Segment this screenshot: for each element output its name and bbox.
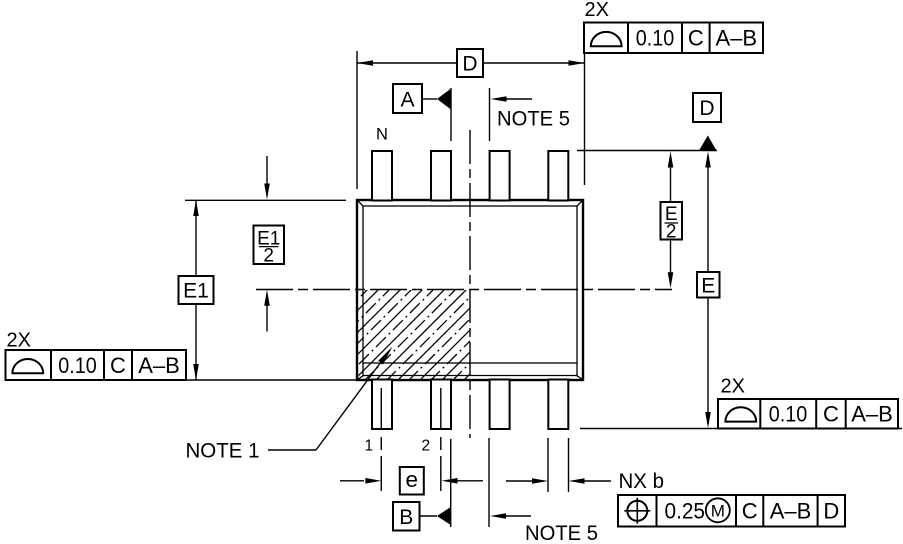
svg-text:2X: 2X xyxy=(721,376,745,398)
svg-text:0.10: 0.10 xyxy=(636,26,675,51)
top-right feature control frame xyxy=(584,23,763,54)
dimension e label box xyxy=(400,467,424,495)
svg-text:0.10: 0.10 xyxy=(58,353,97,378)
dimension E1/2 lower arrow xyxy=(266,295,268,332)
pin 2 centerline xyxy=(440,388,442,491)
bottom pin 1 xyxy=(372,380,392,430)
dimension E/2 line with arrows xyxy=(670,156,672,284)
svg-text:A–B: A–B xyxy=(716,26,758,51)
dimension e right arrow xyxy=(457,480,483,482)
top pin 1 xyxy=(372,151,392,201)
datum A label box xyxy=(393,84,422,113)
dimension E1 label box xyxy=(179,276,214,304)
left frame profile-of-line symbol xyxy=(12,359,43,373)
bottom pin 3 xyxy=(490,380,510,430)
svg-text:A: A xyxy=(400,89,414,112)
svg-text:E1: E1 xyxy=(183,280,209,303)
svg-text:NOTE 1: NOTE 1 xyxy=(186,439,260,463)
package corner bevels xyxy=(358,201,583,380)
dimension E1 bottom extension line xyxy=(186,379,357,381)
svg-text:0.25: 0.25 xyxy=(665,499,706,524)
svg-text:NOTE 5: NOTE 5 xyxy=(497,107,570,131)
dimension E1 top extension line xyxy=(185,199,346,201)
svg-text:0.10: 0.10 xyxy=(769,402,808,427)
svg-text:C: C xyxy=(823,402,839,427)
svg-text:2: 2 xyxy=(263,246,274,267)
svg-text:B: B xyxy=(399,506,413,529)
svg-text:2: 2 xyxy=(422,438,431,455)
dimension E label box xyxy=(697,272,720,298)
svg-text:NX b: NX b xyxy=(619,469,665,493)
dimension e left arrow xyxy=(340,480,364,482)
datum B target line (pin 2 edge extension) xyxy=(450,439,452,527)
NOTE 1 leader with arrowhead into hatched area xyxy=(268,362,381,451)
svg-text:2X: 2X xyxy=(7,330,31,352)
svg-text:e: e xyxy=(406,467,419,492)
bottom-right frame profile-of-line symbol xyxy=(725,407,756,421)
bottom-right feature control frame xyxy=(718,399,898,429)
svg-text:D: D xyxy=(462,53,477,76)
package bottom bevel edge xyxy=(363,375,577,377)
svg-text:C: C xyxy=(110,353,126,378)
position symbol xyxy=(627,501,647,521)
datum D filled triangle xyxy=(699,136,717,151)
datum B leader and filled triangle xyxy=(420,515,438,517)
svg-text:A–B: A–B xyxy=(138,353,180,378)
svg-text:N: N xyxy=(376,126,388,144)
dimension D extension line right / leader from top-right frame xyxy=(584,53,586,185)
NOTE 5 bottom arrow xyxy=(505,515,531,517)
top pin 3 xyxy=(490,151,510,201)
dimension E1 line with arrows xyxy=(195,200,197,380)
top pin 2 xyxy=(431,151,451,201)
datum A leader and filled triangle xyxy=(422,98,437,100)
hatched pin-1 index area (NOTE 1 region) xyxy=(265,286,558,381)
svg-text:D: D xyxy=(823,499,839,524)
vertical centerline xyxy=(469,130,471,438)
left feature control frame xyxy=(6,350,187,380)
dimension E line with arrows xyxy=(707,156,709,424)
top-right frame profile-of-line symbol xyxy=(591,32,622,46)
NOTE 5 top reference line (pin 3 edge extension) xyxy=(489,88,491,141)
top pin 4 (pin N) xyxy=(548,151,568,201)
svg-text:2: 2 xyxy=(666,222,677,243)
svg-text:E: E xyxy=(701,274,715,297)
svg-text:NOTE 5: NOTE 5 xyxy=(525,521,598,544)
svg-text:M: M xyxy=(711,501,725,520)
svg-text:D: D xyxy=(699,97,714,120)
NOTE 5 bottom reference line (pin 3 edge extension) xyxy=(488,438,490,527)
pin 4 edge extension lines for dimension b xyxy=(547,438,549,492)
svg-text:A–B: A–B xyxy=(770,499,812,524)
svg-text:C: C xyxy=(742,499,758,524)
top pin-tip extension line (right) xyxy=(577,150,717,152)
dimension E1/2 label box (fraction) xyxy=(254,226,285,265)
bottom pin 4 xyxy=(548,380,568,430)
svg-text:A–B: A–B xyxy=(851,402,893,427)
dimension E1/2 upper arrow xyxy=(266,156,268,194)
dimension D line with arrows xyxy=(357,62,585,64)
dimension D extension line left xyxy=(356,51,358,189)
dimension E/2 label box (fraction) xyxy=(661,202,683,240)
dimension D label box xyxy=(457,49,483,77)
svg-text:1: 1 xyxy=(365,438,374,455)
NOTE 5 top arrow xyxy=(505,98,532,100)
dimension b left arrow xyxy=(506,480,532,482)
dimension b right arrow xyxy=(584,480,611,482)
svg-text:C: C xyxy=(688,26,704,51)
datum B label box xyxy=(393,502,420,531)
svg-text:2X: 2X xyxy=(585,0,609,21)
datum D label box xyxy=(693,93,721,122)
horizontal centerline xyxy=(256,289,672,291)
bottom pin 2 xyxy=(431,380,451,430)
pin 1 centerline xyxy=(380,388,382,491)
position tolerance feature control frame xyxy=(618,495,845,527)
bottom pin-tip extension line (right) xyxy=(580,428,902,430)
package body outer outline xyxy=(357,200,583,380)
package body inner (top surface) outline xyxy=(363,206,577,363)
datum A target line (pin 2 edge extension) xyxy=(450,88,452,141)
